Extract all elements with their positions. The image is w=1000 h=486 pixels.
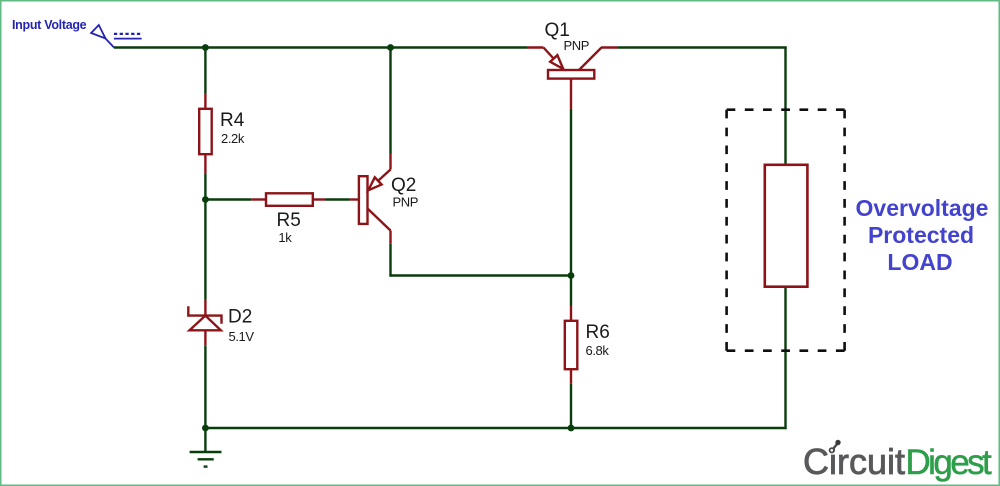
svg-text:R5: R5 bbox=[277, 210, 301, 231]
wire Q2 base lead bbox=[350, 198, 360, 200]
wire bottom rail bbox=[205, 427, 786, 429]
node A junction R4 R5 D2 bbox=[202, 196, 209, 203]
wire Q1 base lead red bbox=[570, 78, 572, 109]
svg-text:D2: D2 bbox=[228, 307, 252, 328]
svg-text:Input Voltage: Input Voltage bbox=[12, 18, 87, 32]
node junction bottom rail R6 bbox=[568, 425, 575, 432]
svg-text:R4: R4 bbox=[220, 110, 245, 131]
svg-text:1k: 1k bbox=[278, 230, 292, 245]
wire left branch upper (top rail to R4) bbox=[204, 48, 206, 94]
node junction bottom rail ground bbox=[202, 425, 209, 432]
wire node A to D2 bbox=[204, 200, 206, 300]
DC symbol dashed line bbox=[114, 33, 142, 35]
wire Q2 emitter to top rail bbox=[389, 48, 391, 154]
node junction top rail Q2 emitter bbox=[387, 44, 394, 51]
wire R6 to bottom rail bbox=[570, 384, 572, 428]
resistor R4 bbox=[199, 109, 212, 154]
zener diode D2 bbox=[188, 306, 221, 330]
ground bbox=[190, 452, 222, 467]
svg-text:6.8k: 6.8k bbox=[586, 343, 610, 358]
svg-text:R6: R6 bbox=[586, 322, 610, 343]
wire R5 right lead bbox=[313, 198, 326, 200]
wire R6 top lead bbox=[570, 306, 572, 322]
load dashed enclosure bbox=[727, 110, 845, 351]
label Overvoltage Protected LOAD bbox=[856, 195, 989, 275]
logo CircuitDigest bbox=[803, 441, 992, 482]
wire Q2 collector vertical red bbox=[389, 231, 391, 244]
wire R4 bottom lead bbox=[204, 154, 206, 174]
wire Q1 base to node B bbox=[570, 109, 572, 276]
svg-text:Protected: Protected bbox=[868, 222, 974, 248]
wire node A to R5 bbox=[205, 198, 251, 200]
wire R4 to node A bbox=[204, 174, 206, 200]
wire Q2 emitter vertical red bbox=[389, 154, 391, 170]
svg-text:PNP: PNP bbox=[393, 195, 419, 210]
wire ground stub bbox=[204, 428, 206, 451]
wire R6 bottom lead bbox=[570, 369, 572, 384]
resistor R5 bbox=[266, 193, 313, 206]
load resistor bbox=[765, 165, 808, 287]
wire Q2 collector down green bbox=[389, 244, 391, 277]
wire R4 top lead bbox=[204, 93, 206, 109]
node junction top rail R4 bbox=[202, 44, 209, 51]
logo pin icon bbox=[829, 440, 841, 454]
input voltage flag symbol bbox=[91, 25, 114, 48]
svg-text:2.2k: 2.2k bbox=[221, 131, 245, 146]
svg-text:LOAD: LOAD bbox=[887, 249, 952, 275]
wire node B to R6 bbox=[570, 276, 572, 306]
svg-text:Overvoltage: Overvoltage bbox=[856, 195, 989, 221]
transistor Q2 bbox=[359, 170, 391, 231]
wire Q2 collector to node B bbox=[389, 274, 571, 276]
wire Q1 emitter red horizontal bbox=[527, 46, 544, 48]
svg-text:5.1V: 5.1V bbox=[229, 329, 255, 344]
wire top rail left segment bbox=[114, 46, 527, 48]
node B junction Q2 collector Q1 base R6 bbox=[568, 272, 575, 279]
wire D2 bottom lead bbox=[204, 331, 206, 346]
resistor R6 bbox=[565, 321, 578, 369]
wire top rail right segment bbox=[618, 46, 787, 48]
DC symbol solid line bbox=[114, 38, 142, 40]
wire D2 top lead bbox=[204, 299, 206, 315]
svg-text:Digest: Digest bbox=[906, 443, 992, 482]
wire Q1 collector red horizontal bbox=[601, 46, 618, 48]
svg-text:PNP: PNP bbox=[564, 38, 590, 53]
svg-text:Q2: Q2 bbox=[391, 175, 416, 196]
svg-text:Circuit: Circuit bbox=[803, 441, 905, 482]
transistor Q1 bbox=[544, 48, 602, 79]
wire R5 to Q2 base bbox=[326, 198, 350, 200]
wire D2 to ground node bbox=[204, 346, 206, 428]
wire right rail bbox=[784, 46, 786, 429]
wire R5 left lead bbox=[251, 198, 266, 200]
